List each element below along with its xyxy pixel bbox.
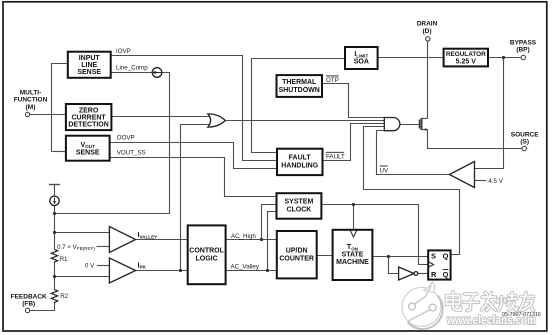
svg-text:DETECTION: DETECTION — [68, 122, 108, 129]
svg-text:Q: Q — [443, 270, 449, 279]
svg-text:CLOCK: CLOCK — [286, 206, 311, 213]
svg-text:STATE: STATE — [342, 251, 364, 258]
svg-text:LOGIC: LOGIC — [196, 255, 218, 262]
svg-text:(S): (S) — [520, 139, 529, 146]
svg-text:FUNCTION: FUNCTION — [14, 97, 48, 104]
svg-text:LINE: LINE — [81, 62, 97, 69]
svg-text:5.25 V: 5.25 V — [456, 58, 477, 65]
svg-text:05-7907-071316: 05-7907-071316 — [502, 312, 541, 318]
svg-text:FEEDBACK: FEEDBACK — [11, 293, 47, 300]
svg-text:OOVP: OOVP — [117, 135, 135, 142]
svg-text:Line_Comp: Line_Comp — [116, 65, 148, 72]
svg-text:MACHINE: MACHINE — [336, 259, 369, 266]
svg-text:(M): (M) — [26, 104, 36, 111]
svg-text:SOA: SOA — [354, 59, 369, 66]
svg-text:BYPASS: BYPASS — [510, 39, 537, 46]
svg-text:FAULT: FAULT — [289, 155, 312, 162]
svg-text:MULTI-: MULTI- — [20, 89, 42, 96]
svg-text:REGULATOR: REGULATOR — [446, 51, 486, 58]
svg-text:FAULT: FAULT — [326, 154, 345, 161]
svg-text:(D): (D) — [422, 28, 431, 35]
svg-text:R: R — [431, 270, 437, 279]
svg-text:SHUTDOWN: SHUTDOWN — [279, 87, 320, 94]
svg-text:SENSE: SENSE — [76, 150, 100, 157]
svg-text:SENSE: SENSE — [77, 69, 101, 76]
svg-text:AC_High: AC_High — [231, 233, 256, 240]
svg-text:ZERO: ZERO — [79, 108, 99, 115]
svg-text:OTP: OTP — [326, 77, 339, 84]
svg-text:AC_Valley: AC_Valley — [231, 263, 260, 270]
svg-text:(FB): (FB) — [22, 301, 35, 308]
svg-text:R1: R1 — [60, 256, 68, 263]
svg-text:R2: R2 — [60, 293, 68, 300]
svg-text:(BP): (BP) — [516, 47, 529, 54]
svg-text:VOUT_SS: VOUT_SS — [117, 150, 146, 157]
svg-text:S: S — [431, 252, 436, 261]
svg-text:UV: UV — [380, 167, 389, 174]
svg-text:HANDLING: HANDLING — [281, 162, 318, 169]
svg-text:INPUT: INPUT — [79, 55, 101, 62]
svg-text:SYSTEM: SYSTEM — [285, 199, 314, 206]
svg-text:DRAIN: DRAIN — [417, 21, 438, 28]
svg-text:IOVP: IOVP — [116, 48, 131, 55]
svg-text:CONTROL: CONTROL — [189, 248, 224, 255]
svg-text:UP/DN: UP/DN — [286, 248, 308, 255]
svg-text:4.5 V: 4.5 V — [488, 178, 503, 185]
svg-text:Q: Q — [443, 252, 449, 261]
svg-text:THERMAL: THERMAL — [282, 79, 317, 86]
svg-text:CURRENT: CURRENT — [71, 115, 106, 122]
svg-text:COUNTER: COUNTER — [279, 255, 314, 262]
svg-text:SOURCE: SOURCE — [511, 131, 539, 138]
svg-text:0 V: 0 V — [85, 263, 95, 270]
